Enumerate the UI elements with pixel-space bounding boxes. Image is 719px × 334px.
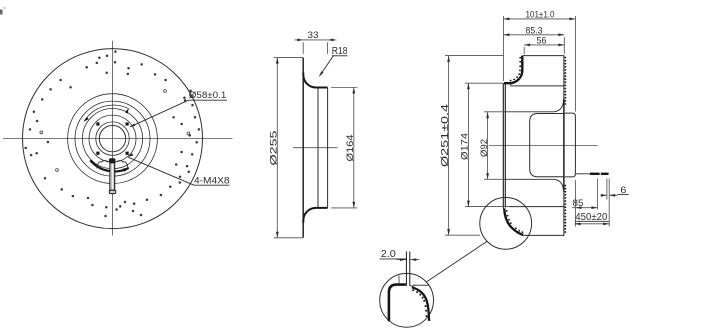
dim D251 ext lines xyxy=(445,56,503,236)
left view balance clip scallop xyxy=(97,161,128,169)
dim D174 ext line top xyxy=(465,82,503,84)
left view thick rotation arc bottom xyxy=(90,160,129,172)
dim 85 text xyxy=(573,198,584,209)
right top curl xyxy=(504,56,522,83)
dim 33 line and arrows xyxy=(295,39,337,42)
detail notch xyxy=(410,284,429,286)
leader R18 xyxy=(319,56,333,77)
right motor front body xyxy=(530,114,564,177)
detail view circle xyxy=(380,273,434,327)
dim 85.3 ext line xyxy=(563,37,565,54)
detail sheet verticals xyxy=(406,252,409,286)
svg-text:Ø164: Ø164 xyxy=(345,135,356,162)
detail balloon circle xyxy=(480,197,532,249)
middle view centerline xyxy=(293,147,338,149)
dim 2.0 arrows xyxy=(397,258,420,261)
right bottom edge xyxy=(523,234,564,236)
svg-text:Ø92: Ø92 xyxy=(479,139,490,157)
svg-text:Ø255: Ø255 xyxy=(268,131,279,166)
dim D255 text xyxy=(268,131,279,166)
middle profile cup right vertical D164 xyxy=(327,88,329,208)
right cup top line xyxy=(505,100,563,112)
dim 85 ext lines xyxy=(575,179,597,227)
left view shaft stub xyxy=(109,158,116,193)
dim D251 text xyxy=(440,103,451,167)
right blade bottom edge xyxy=(510,206,564,208)
dim 33 extension lines xyxy=(303,42,327,54)
right bottom curl hatch xyxy=(506,210,523,233)
detail outer curl xyxy=(389,285,406,322)
dim 450 line xyxy=(575,223,610,226)
right bottom curl xyxy=(504,208,523,235)
detail inner vertical xyxy=(398,276,400,285)
svg-text:Ø58±0.1: Ø58±0.1 xyxy=(189,90,227,101)
dim 101 text xyxy=(526,9,555,20)
dim 2.0 text xyxy=(380,249,406,260)
dim 85.3 text xyxy=(526,25,543,36)
label R18 xyxy=(332,46,348,57)
left view hub concentric circles xyxy=(68,94,158,184)
right motor rear body xyxy=(565,113,576,177)
middle profile left vertical D255 edge xyxy=(302,58,304,238)
svg-text:85: 85 xyxy=(573,198,584,209)
right cable xyxy=(576,173,609,175)
left view outer disc circle D255 xyxy=(23,49,203,229)
right blade top edge xyxy=(509,83,564,86)
left view 4 bolt hole squares M4 xyxy=(96,122,128,154)
dim D251 line xyxy=(447,56,450,235)
middle profile bottom curl R18 xyxy=(303,208,327,223)
label D58 bolt circle xyxy=(189,90,228,101)
dim 6 text xyxy=(617,185,628,196)
dim D174 text xyxy=(460,133,471,160)
dim D255 extension lines xyxy=(274,58,303,238)
right view centerline xyxy=(489,145,598,147)
dim D92 ext lines xyxy=(484,112,505,180)
dim D164 extension lines xyxy=(331,88,357,208)
left view balance holes pattern xyxy=(24,50,200,217)
left view vertical centerline xyxy=(112,41,114,236)
right blade section hatch dots xyxy=(565,57,567,233)
dim 6 ext lines xyxy=(607,179,609,227)
dim 101 line xyxy=(503,18,575,21)
svg-text:33: 33 xyxy=(308,30,319,41)
svg-text:Ø174: Ø174 xyxy=(460,133,471,160)
dim 85 line xyxy=(572,206,597,209)
detail blade curl hatch xyxy=(412,289,427,317)
label 4-M4X8 xyxy=(194,176,230,187)
dim D255 line xyxy=(276,58,279,238)
right top edge xyxy=(522,55,564,57)
dim D164 text xyxy=(345,135,356,162)
detail leader line xyxy=(427,242,487,282)
dim 56 ext line xyxy=(523,47,525,54)
right cup bottom line xyxy=(505,179,563,191)
right motor plate vertical xyxy=(563,56,565,236)
dim D174 line xyxy=(467,83,470,206)
middle profile cup inner vertical xyxy=(317,88,319,208)
dim 450 text xyxy=(575,212,609,223)
detail blade curl xyxy=(412,287,429,321)
right top curl hatch xyxy=(510,57,521,82)
left view rotation arc with arrows xyxy=(84,105,129,122)
leader for D58 xyxy=(129,100,188,127)
dim D92 line xyxy=(486,112,489,179)
leader for 4-M4X8 xyxy=(127,153,194,185)
dim 6 arrows xyxy=(601,194,618,197)
dim 85.3 line xyxy=(503,33,564,36)
dim D92 text xyxy=(479,139,490,157)
dim 56 line xyxy=(524,44,564,47)
dim D164 line xyxy=(352,88,355,208)
dim 33 text xyxy=(308,30,319,41)
dim 56 text xyxy=(537,36,547,47)
left view horizontal centerline xyxy=(3,138,233,140)
dim D174 ext line bottom xyxy=(465,206,510,208)
dim 101 ext lines xyxy=(503,16,575,112)
right back plate double line xyxy=(503,83,505,209)
middle profile top curl R18 xyxy=(303,73,327,88)
svg-text:Ø251±0.4: Ø251±0.4 xyxy=(440,103,451,167)
stray mark top-left corner xyxy=(0,7,6,15)
